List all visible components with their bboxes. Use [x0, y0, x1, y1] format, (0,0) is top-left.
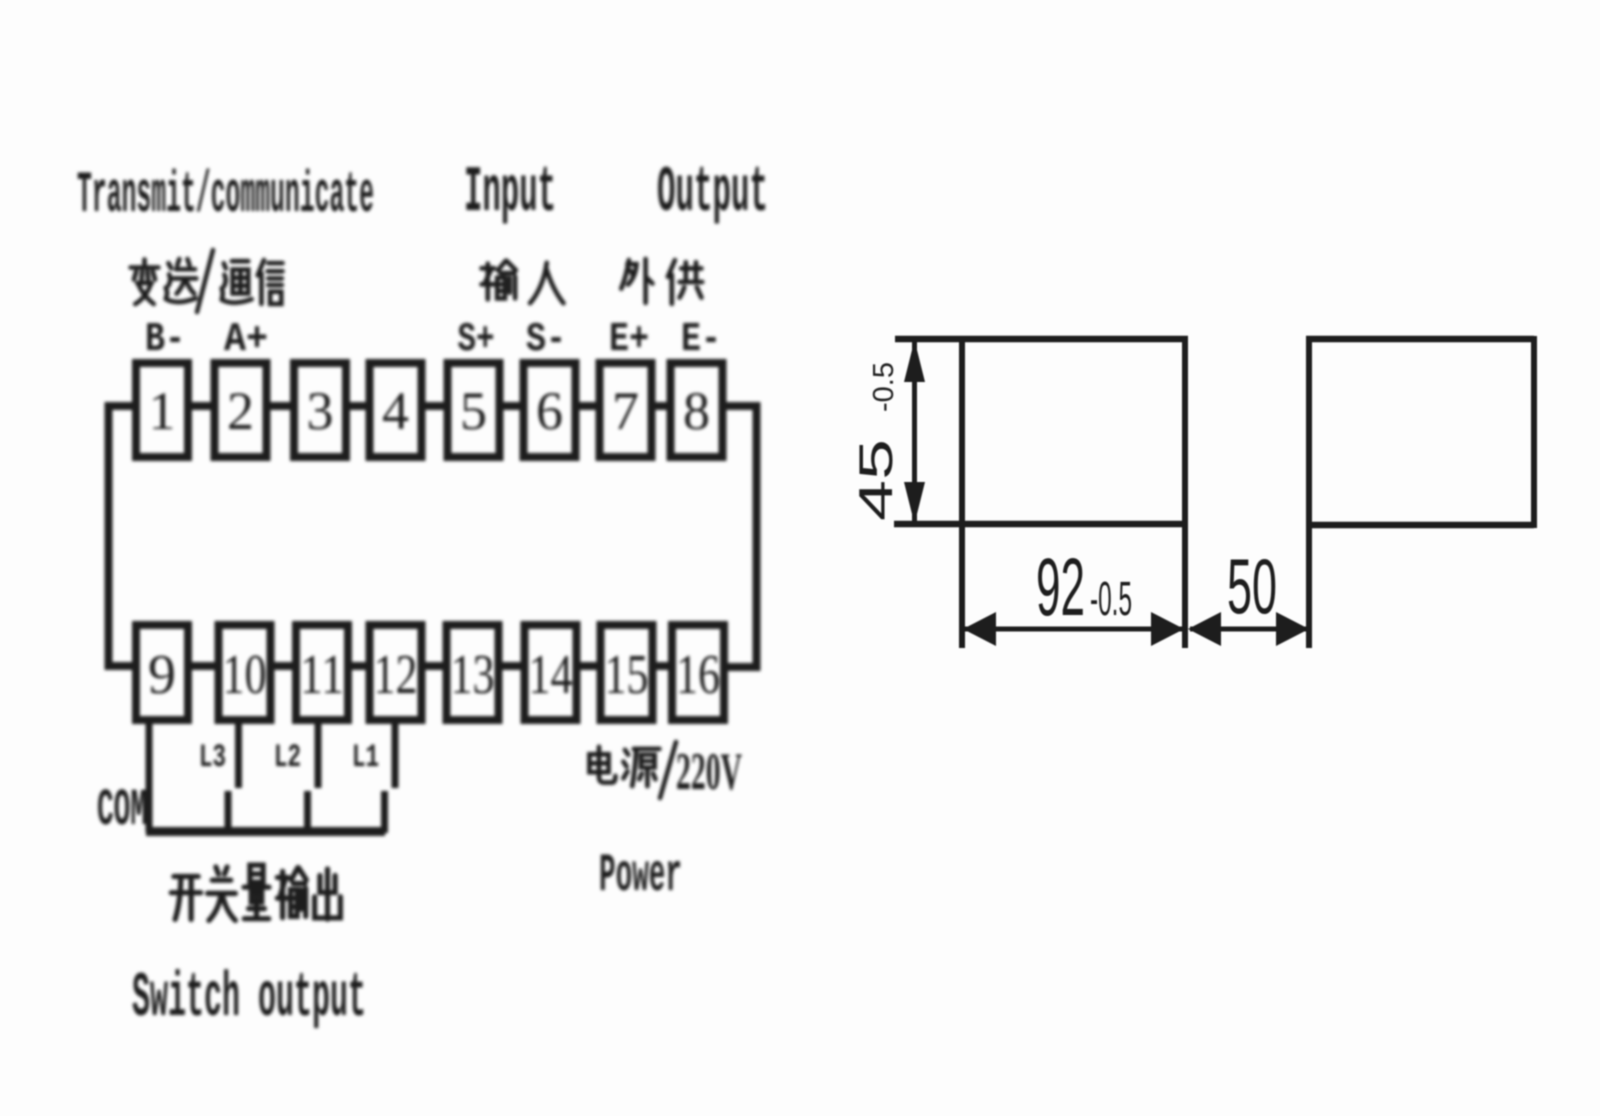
relay contact below terminal 12 (L1)	[385, 721, 396, 833]
relay contact below terminal 10 (L3)	[228, 721, 239, 833]
dimension text 45-0.5 (rotated)	[849, 362, 902, 521]
terminal 4	[370, 363, 422, 457]
svg-text:L3: L3	[199, 739, 226, 776]
svg-text:50: 50	[1227, 542, 1277, 630]
svg-text:E+: E+	[609, 317, 649, 363]
svg-text:14: 14	[529, 644, 573, 706]
svg-text:L1: L1	[352, 739, 379, 776]
terminal 8	[671, 363, 723, 457]
dimension 45-0.5 vertical arrow	[904, 340, 925, 524]
terminal 7	[600, 363, 652, 457]
wire terminal 9 down to COM bus	[146, 721, 153, 832]
svg-text:92: 92	[1036, 542, 1085, 633]
terminal 6	[524, 363, 576, 457]
terminal 10	[219, 625, 271, 720]
terminal 5	[448, 363, 500, 457]
svg-text:5: 5	[460, 381, 487, 441]
terminal 15	[601, 625, 653, 720]
svg-text:10: 10	[223, 644, 267, 706]
terminal 11	[296, 625, 348, 720]
label 开关量输出 (Switch output, Chinese)	[171, 865, 340, 920]
svg-text:9: 9	[148, 644, 176, 706]
dimension text 92-0.5	[1036, 542, 1132, 633]
svg-text:3: 3	[307, 381, 334, 441]
wire left loop connecting terminal 1 to terminal 9	[109, 406, 134, 666]
terminal 2	[215, 363, 267, 457]
svg-text:A+: A+	[224, 317, 268, 363]
svg-text:L2: L2	[274, 739, 301, 776]
svg-text:B-: B-	[145, 317, 185, 363]
terminal 1	[136, 363, 188, 457]
label 变送/通信 (Transmit/communication, Chinese)	[131, 250, 283, 312]
panel side-view rectangle	[1306, 336, 1534, 648]
terminal 14	[525, 625, 577, 720]
svg-text:6: 6	[536, 381, 563, 441]
svg-text:220V: 220V	[676, 743, 742, 801]
panel front-view rectangle	[894, 336, 1188, 648]
wire top-row bus between terminals 1-8	[191, 402, 668, 410]
label 外供 (External supply, Chinese)	[621, 259, 702, 304]
svg-text:1: 1	[149, 381, 176, 441]
svg-text:4: 4	[382, 381, 409, 441]
svg-text:8: 8	[683, 381, 710, 441]
label 电源/220V (Power supply/220V)	[589, 742, 742, 801]
svg-text:15: 15	[605, 644, 649, 706]
relay contact below terminal 11 (L2)	[308, 721, 319, 833]
terminal 12	[370, 625, 422, 720]
terminal 13	[447, 625, 499, 720]
dimension 92-0.5 horizontal arrow	[963, 612, 1184, 646]
svg-text:Switch output: Switch output	[132, 963, 366, 1034]
svg-text:E-: E-	[681, 317, 721, 363]
svg-text:-0.5: -0.5	[868, 362, 900, 412]
COM bus wire	[146, 827, 385, 836]
terminal 3	[294, 363, 346, 457]
svg-text:Power: Power	[599, 846, 682, 907]
svg-text:16: 16	[676, 644, 720, 706]
svg-text:12: 12	[374, 644, 418, 706]
svg-text:11: 11	[300, 644, 344, 706]
wire bottom-row bus between terminals 9-16	[191, 662, 669, 670]
svg-text:COM: COM	[97, 781, 147, 840]
dimension 50 horizontal arrow	[1188, 612, 1309, 646]
svg-text:S+: S+	[458, 317, 495, 363]
svg-text:-0.5: -0.5	[1090, 573, 1132, 626]
svg-text:7: 7	[612, 381, 639, 441]
svg-text:Transmit/communicate: Transmit/communicate	[77, 164, 374, 229]
terminal 16	[672, 625, 724, 720]
svg-text:Input: Input	[464, 156, 556, 230]
svg-text:Output: Output	[657, 156, 768, 230]
label 输入 (Input, Chinese)	[482, 261, 564, 303]
svg-text:S-: S-	[526, 317, 566, 363]
wire right loop connecting terminal 8 to terminal 16	[726, 406, 757, 667]
terminal 9	[136, 625, 188, 720]
svg-text:13: 13	[451, 644, 495, 706]
svg-text:45: 45	[849, 439, 902, 521]
svg-text:2: 2	[227, 381, 254, 441]
